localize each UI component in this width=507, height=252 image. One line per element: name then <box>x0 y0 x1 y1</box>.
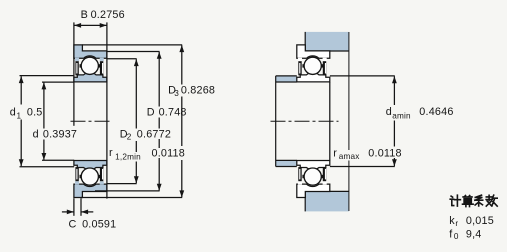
d dim line <box>43 83 45 129</box>
svg-text:B: B <box>81 9 88 21</box>
svg-text:9,4: 9,4 <box>466 228 482 240</box>
heading 计算系数 (calculation factors) drawn as strokes <box>450 195 497 206</box>
seal left upper <box>75 61 78 75</box>
D3 dim line <box>181 45 183 84</box>
svg-text:d: d <box>10 107 16 119</box>
svg-text:amin: amin <box>392 112 411 121</box>
inner ring lower <box>74 161 107 170</box>
inner ring lower <box>297 161 330 170</box>
outer ring upper (flanged) <box>74 45 107 58</box>
svg-text:r: r <box>333 147 337 159</box>
svg-text:0.8268: 0.8268 <box>181 85 215 97</box>
C arrow pointing right <box>67 210 74 215</box>
housing lower top edge (on ring) <box>305 190 349 192</box>
d1 arrow down <box>19 159 24 166</box>
housing upper bottom edge (on ring) <box>305 50 349 52</box>
svg-text:0.748: 0.748 <box>159 107 187 119</box>
seal right upper <box>100 61 103 75</box>
da arrow down <box>392 159 397 166</box>
housing upper left edge <box>304 32 306 51</box>
inner ring upper <box>74 73 107 82</box>
seal left lower <box>75 167 78 181</box>
da arrow up <box>392 76 397 83</box>
d arrow down <box>42 153 47 160</box>
housing lower left edge <box>304 191 306 211</box>
B dimension line <box>74 24 107 26</box>
d1 dim line <box>20 76 22 104</box>
outer ring lower (flanged) <box>297 184 330 197</box>
svg-text:0.0118: 0.0118 <box>368 147 401 159</box>
svg-text:0.6772: 0.6772 <box>137 128 171 140</box>
D2 dim line <box>135 59 137 128</box>
svg-text:r: r <box>455 219 458 228</box>
housing block lower <box>305 191 349 211</box>
housing block upper <box>305 32 349 51</box>
outer ring seal-recess tabs upper <box>75 58 79 61</box>
right centerline (axis) <box>271 120 339 122</box>
svg-text:1,2min: 1,2min <box>115 153 141 162</box>
D2 arrow up <box>134 59 139 66</box>
svg-text:D: D <box>147 107 155 119</box>
left centerline (axis) <box>71 120 111 122</box>
cage nubs lower <box>302 175 304 178</box>
svg-text:1: 1 <box>17 111 22 120</box>
ball upper <box>304 57 321 74</box>
outer ring seal-recess tabs lower <box>75 181 79 184</box>
inner ring upper <box>297 73 330 82</box>
D3 arrow up <box>179 45 184 52</box>
B ext line right / bearing right face <box>106 22 108 198</box>
outer ring lower (flanged) <box>74 184 107 197</box>
svg-text:3: 3 <box>174 89 179 98</box>
seal right lower <box>100 167 103 181</box>
svg-text:r: r <box>109 147 113 159</box>
d arrow up <box>42 82 47 89</box>
da leader lower <box>330 166 395 168</box>
da leader upper <box>330 75 395 77</box>
seal left lower <box>298 167 301 181</box>
cage nubs upper <box>80 64 82 67</box>
svg-text:0.2756: 0.2756 <box>91 9 125 21</box>
svg-text:0.0118: 0.0118 <box>152 147 185 159</box>
svg-text:d: d <box>386 106 392 118</box>
D2 leader upper <box>107 58 137 60</box>
D3 leader upper (flange top) <box>82 44 182 46</box>
seal right upper <box>323 61 326 75</box>
D3 arrow down <box>179 190 184 197</box>
ball upper <box>81 57 98 74</box>
svg-text:0,015: 0,015 <box>466 215 494 227</box>
C dim stub right <box>81 211 93 213</box>
d1 arrow up <box>19 76 24 83</box>
da dim line <box>393 76 395 105</box>
cage nubs upper <box>302 64 304 67</box>
svg-text:d: d <box>33 129 39 141</box>
cage nubs lower <box>80 175 82 178</box>
D leader lower <box>95 190 160 192</box>
svg-text:0.4646: 0.4646 <box>419 106 453 118</box>
shaft shoulder lower top edge <box>276 159 297 161</box>
C ext line right <box>80 198 82 216</box>
B arrow left <box>74 23 81 28</box>
svg-text:C: C <box>69 219 77 231</box>
d1 leader lower <box>20 166 75 168</box>
outer ring seal-recess tabs upper <box>298 58 302 61</box>
D2 leader lower <box>107 183 137 185</box>
d1 leader upper <box>20 75 75 77</box>
svg-text:0.5: 0.5 <box>27 107 43 119</box>
shaft shoulder upper top edge <box>276 75 297 77</box>
svg-text:2: 2 <box>127 133 132 142</box>
svg-text:0.0591: 0.0591 <box>82 219 116 231</box>
D2 arrow down <box>134 176 139 183</box>
D arrow up <box>157 52 162 59</box>
d leader lower <box>42 159 74 161</box>
bearing right face line (between sections) <box>329 82 331 161</box>
shaft shoulder block upper <box>276 76 297 82</box>
C dim stub left <box>62 211 74 213</box>
D3 leader lower (flange bottom) <box>81 197 182 199</box>
svg-text:amax: amax <box>339 152 360 161</box>
D leader upper <box>107 51 160 53</box>
svg-text:0: 0 <box>454 232 459 241</box>
shaft shoulder face line <box>275 76 277 167</box>
B arrow right <box>100 23 107 28</box>
outer ring upper (flanged) <box>297 45 330 58</box>
shaft shoulder lower bottom edge <box>276 166 297 168</box>
shaft shoulder block lower <box>276 160 297 166</box>
D arrow down <box>157 184 162 191</box>
D dim line <box>158 52 160 107</box>
svg-text:k: k <box>449 215 455 227</box>
C arrow pointing left <box>81 210 88 215</box>
outer ring seal-recess tabs lower <box>298 181 302 184</box>
ball lower <box>81 168 98 185</box>
seal right lower <box>323 167 326 181</box>
ball lower <box>304 168 321 185</box>
seal left upper <box>298 61 301 75</box>
housing edge ext line <box>348 32 350 150</box>
C ext line left <box>73 198 75 216</box>
svg-text:0.3937: 0.3937 <box>43 129 77 141</box>
shaft shoulder upper bottom edge <box>276 81 297 83</box>
B ext line left / bearing left face <box>73 22 75 125</box>
d leader upper <box>42 81 74 83</box>
